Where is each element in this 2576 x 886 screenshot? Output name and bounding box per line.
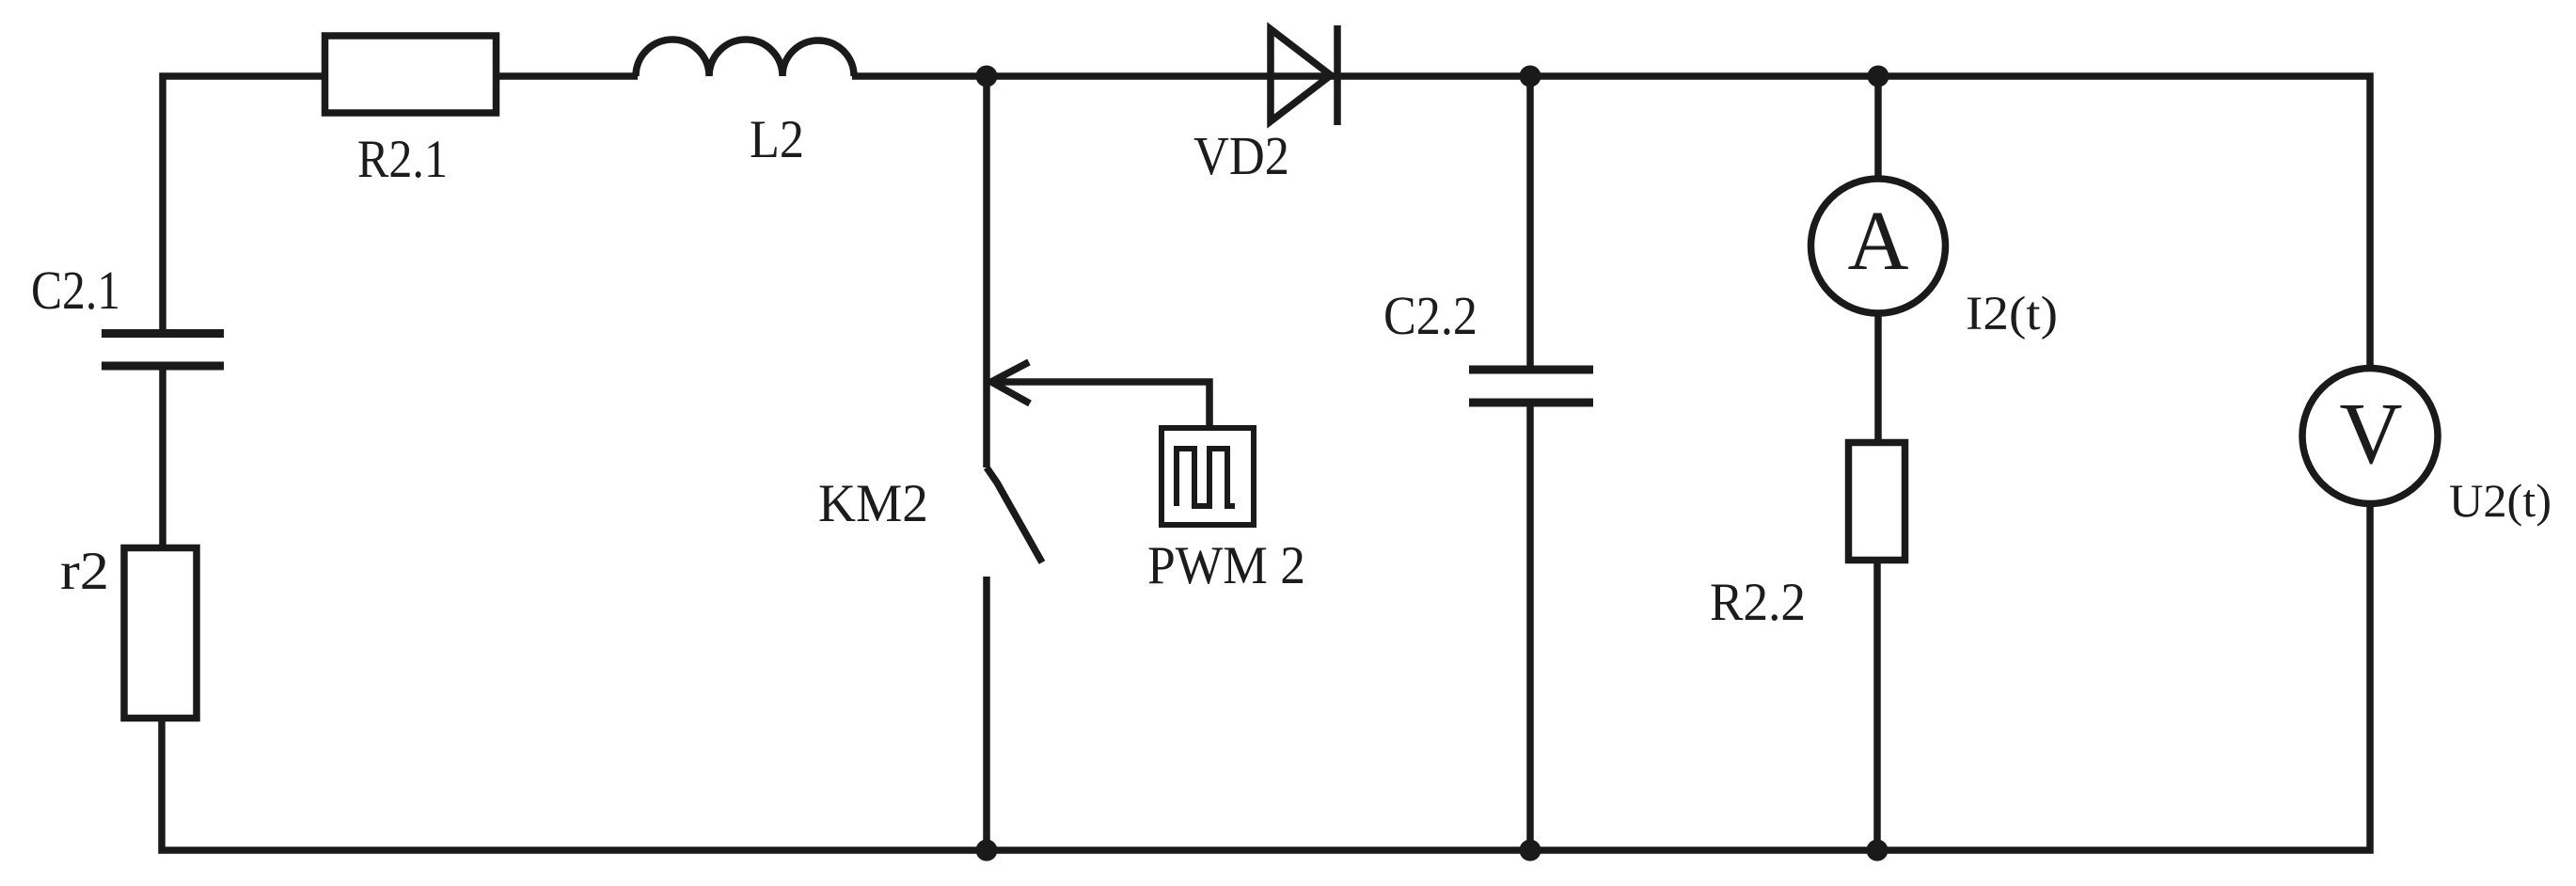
svg-text:C2.1: C2.1 [31,260,120,321]
inductor L2 [636,40,854,76]
diode VD2 [1271,25,1337,125]
svg-text:I2(t): I2(t) [1966,288,2058,340]
resistor R2.1 [325,36,497,113]
resistor R2.2 [1849,443,1905,561]
svg-text:C2.2: C2.2 [1383,285,1478,346]
arrowhead at KM2 [991,362,1030,403]
capacitor C2.1 [102,334,224,367]
wire R2.1 to L2 [496,72,638,80]
switch KM2 blade [987,467,1042,562]
wire bottom rail with corners: r2 down, bottom wire, right rail lower [162,507,2370,850]
resistor r2 [124,548,197,719]
switch KM2 upper wire [983,76,990,467]
node C: junction at ammeter branch top [1868,66,1889,87]
wire C2.1 to r2 [159,370,166,546]
PWM generator PWM 2 [1162,428,1254,525]
svg-text:R2.1: R2.1 [357,130,448,189]
node D: bottom junction KM2 [976,840,998,862]
voltmeter V (U2(t)) [2302,369,2438,504]
wire C2.2 branch upper [1526,76,1534,366]
svg-text:V: V [2339,386,2402,483]
svg-text:KM2: KM2 [818,474,928,533]
ammeter A (I2(t)) [1811,179,1946,313]
svg-text:PWM 2: PWM 2 [1147,536,1305,595]
node E: bottom junction C2.2 [1520,840,1541,862]
wire top-left corner: left rail upper + top wire to R2.1 [163,76,325,329]
wire ammeter branch upper [1874,76,1882,181]
wire top rail to top-right corner and down to voltmeter [852,76,2370,367]
wire ammeter to R2.2 [1874,313,1882,442]
svg-text:R2.2: R2.2 [1710,573,1806,632]
node B: junction at diode / C2.2 top [1520,66,1541,87]
node F: bottom junction R2.2 [1867,840,1889,862]
svg-text:L2: L2 [750,110,804,169]
switch KM2 lower wire [983,577,990,850]
node A: junction at L2 / KM2 [976,66,998,87]
wire PWM control line to KM2 [995,382,1209,425]
svg-text:U2(t): U2(t) [2449,474,2552,527]
wire C2.2 branch lower [1526,406,1534,850]
wire R2.2 to bottom rail [1873,561,1881,850]
svg-text:r2: r2 [60,542,109,601]
svg-text:A: A [1848,195,1909,288]
svg-text:VD2: VD2 [1193,125,1289,186]
capacitor C2.2 [1469,370,1593,403]
